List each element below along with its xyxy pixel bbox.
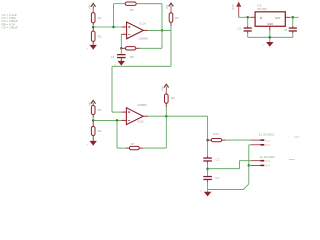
wire R7 up to output IC1B — [143, 116, 166, 148]
capacitor C2 — [203, 156, 212, 164]
wire output IC1B to right column — [148, 116, 208, 156]
resistor R8 — [121, 47, 139, 50]
wire branch to pin KL3 — [208, 161, 252, 169]
resistor R7 — [126, 146, 143, 149]
capacitor C1 — [117, 48, 126, 61]
resistor R1 — [91, 13, 95, 26]
pin KL4 — [251, 165, 264, 167]
svg-text:C4: C4 — [238, 26, 242, 30]
wire C3 to ground — [207, 182, 209, 192]
svg-text:+9V: +9V — [87, 101, 91, 106]
resistor R9 — [165, 94, 169, 107]
node output IC1B — [165, 115, 168, 118]
wire R5 right to output column — [136, 4, 162, 31]
svg-text:11-29-2021: 11-29-2021 — [259, 155, 275, 159]
svg-text:KL3: KL3 — [265, 159, 270, 163]
svg-text:R5: R5 — [130, 8, 134, 12]
wire pin KL4 — [249, 164, 252, 166]
capacitor C4 — [244, 17, 252, 37]
svg-text:OUT: OUT — [275, 16, 281, 20]
resistor R6 — [169, 13, 173, 26]
svg-text:LM358N: LM358N — [137, 103, 147, 107]
wire output IC1A — [148, 29, 171, 31]
node C4 tap — [246, 16, 249, 19]
op-amp U1 IC1A — [121, 22, 148, 39]
wire divider to -input IC1B — [93, 119, 122, 121]
svg-text:R10: R10 — [213, 132, 219, 136]
resistor R3 — [91, 106, 95, 118]
wire gnd pin to bus — [269, 31, 271, 42]
svg-text:KL4: KL4 — [265, 164, 270, 168]
svg-text:R9: R9 — [171, 96, 175, 100]
svg-text:R1: R1 — [98, 16, 102, 20]
svg-text:11-29-2021: 11-29-2021 — [259, 132, 275, 136]
svg-text:R7: R7 — [131, 142, 135, 146]
wire feedback down to R7 — [117, 120, 126, 148]
svg-text:IN: IN — [260, 16, 263, 20]
node output IC1A — [161, 29, 164, 32]
svg-text:C1: C1 — [111, 55, 115, 59]
off-page net marker right 1 — [288, 136, 300, 139]
wire regulator output — [290, 16, 299, 18]
wire C2-C3 node column — [207, 163, 209, 176]
node junction at +input wire — [112, 26, 115, 29]
wire R10 to pin KL1 — [226, 139, 252, 141]
node R10 tap — [206, 139, 209, 142]
resistor R2 — [91, 27, 95, 45]
svg-text:GND: GND — [267, 22, 273, 26]
svg-text:+9V: +9V — [165, 4, 169, 9]
wire route stage1 out to stage2 +input — [112, 30, 171, 112]
svg-text:78L05Z: 78L05Z — [257, 7, 267, 11]
wire -input down to RC node — [120, 34, 122, 48]
node A junction — [92, 26, 95, 29]
node RC junction — [120, 47, 123, 50]
ground (main bottom) — [200, 190, 211, 196]
pin KL1 — [251, 139, 264, 141]
op-amp U1 IC1B — [122, 108, 148, 125]
capacitor C3 — [203, 176, 212, 182]
wire pin KL2 — [249, 145, 252, 166]
wire regulator input — [239, 16, 251, 18]
supply +12V arrow (regulator input) — [236, 2, 241, 18]
supply +9V arrow (R6 pull-up) — [169, 3, 174, 13]
node KL4 junction — [248, 164, 251, 167]
svg-text:IC1B: IC1B — [137, 120, 144, 124]
capacitor C5 — [289, 17, 297, 37]
wire divider to +input IC1A — [93, 26, 122, 28]
svg-text:R8: R8 — [130, 55, 134, 59]
svg-text:C5: C5 — [284, 28, 288, 32]
supply +9V arrow (stage 2 divider) — [91, 100, 96, 105]
wire hysteresis branch up to R5 — [114, 4, 126, 27]
svg-text:C3: C3 — [215, 176, 219, 180]
wire R6 to output node — [170, 26, 172, 30]
resistor R10 — [208, 139, 226, 142]
ground (below R2) — [87, 45, 97, 51]
svg-text:C5 = 100uF: C5 = 100uF — [2, 26, 18, 30]
node feedback junction — [116, 119, 119, 122]
resistor R4 — [91, 120, 95, 140]
svg-text:C2: C2 — [216, 157, 220, 161]
wire R8 to output column — [140, 30, 162, 48]
resistor R5 — [125, 2, 136, 5]
svg-text:+9V: +9V — [161, 86, 165, 91]
svg-text:KL1: KL1 — [265, 138, 270, 142]
svg-text:R2: R2 — [98, 34, 102, 38]
svg-text:LM358N: LM358N — [138, 36, 148, 40]
voltage regulator IC2 78L05Z — [251, 12, 290, 31]
wire KL2/KL4 node to ground rail — [208, 165, 249, 189]
svg-text:+12V: +12V — [231, 4, 235, 10]
wire R9 to output node — [165, 107, 167, 116]
svg-text:KL2: KL2 — [265, 143, 270, 147]
svg-text:R6: R6 — [175, 16, 179, 20]
ground (below C1) — [115, 61, 125, 67]
svg-text:R4: R4 — [98, 129, 102, 133]
svg-text:IC1A: IC1A — [139, 21, 146, 25]
node mid C2 C3 — [206, 167, 209, 170]
value legend text block — [2, 13, 18, 30]
svg-text:+9V: +9V — [87, 4, 91, 9]
off-page net marker right 2 — [286, 159, 295, 162]
supply +9V arrow (stage 1 divider) — [91, 4, 96, 13]
pin KL2 — [251, 144, 264, 146]
svg-text:R3: R3 — [98, 108, 102, 112]
node B junction stage2 divider — [92, 119, 95, 122]
ground (regulator) — [262, 42, 273, 47]
wire ground bus — [248, 36, 293, 38]
node C5 tap — [292, 16, 295, 19]
node gnd junction — [269, 36, 272, 39]
pin KL3 — [251, 160, 264, 162]
supply +9V arrow (R9 pull-up) — [164, 84, 169, 94]
ground (below R4) — [87, 141, 97, 147]
